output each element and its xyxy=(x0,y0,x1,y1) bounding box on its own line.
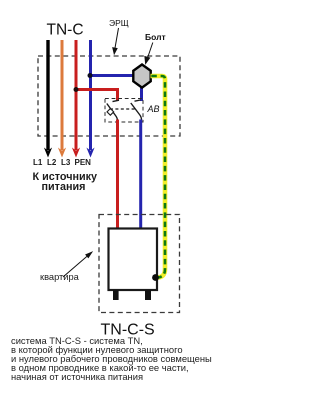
wire L1 (black phase) xyxy=(46,40,49,150)
caption text block xyxy=(11,335,212,382)
breaker pole 1 (red phase): fixed contact tick xyxy=(113,100,120,101)
arrowhead PEN xyxy=(86,148,94,158)
svg-text:АВ: АВ xyxy=(147,104,160,114)
wire: blue branch PEN to bolt (horizontal) xyxy=(91,74,136,77)
wire: blue from bolt down to breaker xyxy=(140,84,143,101)
PE terminal dot on panel xyxy=(152,274,159,281)
box ЭРЩ (floor distribution board, dashed) xyxy=(38,56,180,136)
svg-text:начиная от источника питания: начиная от источника питания xyxy=(11,371,143,382)
svg-text:квартира: квартира xyxy=(40,272,80,282)
bolt (hex head, gray) xyxy=(133,65,150,88)
svg-text:ЭРЩ: ЭРЩ xyxy=(109,18,129,28)
svg-text:L1: L1 xyxy=(33,158,43,167)
box АВ (circuit breakers, dashed) xyxy=(105,99,143,123)
arrowhead L1 xyxy=(44,148,52,158)
apartment panel (white box) xyxy=(109,229,158,291)
junction dot on L3 wire xyxy=(74,87,79,92)
box квартира (apartment, dashed) xyxy=(99,215,180,313)
breaker pole 2 blade xyxy=(131,103,142,120)
wire PE (yellow-green) from bolt to apartment panel xyxy=(151,76,166,278)
wire PEN (blue) xyxy=(89,40,92,150)
wire: red from breaker down to apartment panel xyxy=(116,120,119,230)
leader arrow to ЭРЩ box xyxy=(113,28,119,54)
wire: blue from breaker down to apartment panel xyxy=(139,120,142,230)
svg-text:питания: питания xyxy=(42,181,86,193)
svg-text:L3: L3 xyxy=(61,158,71,167)
breaker linkage (dashed) xyxy=(110,108,136,110)
panel foot right xyxy=(145,290,151,300)
svg-text:L2: L2 xyxy=(47,158,57,167)
wire: red branch L3 (horizontal then down to breaker) xyxy=(76,90,118,102)
leader arrow to bolt xyxy=(145,43,153,64)
wire L2 (orange phase) xyxy=(61,40,64,150)
arrowhead L3 xyxy=(72,148,80,158)
wire L3 (red phase) xyxy=(75,40,78,150)
breaker pole 1 blade xyxy=(107,104,118,122)
breaker pole 1 release diamond xyxy=(107,109,114,116)
svg-text:TN-C: TN-C xyxy=(47,22,84,39)
svg-text:Болт: Болт xyxy=(145,32,166,42)
breaker pole 2 (blue): fixed contact tick xyxy=(135,100,141,101)
leader arrow to квартира box xyxy=(63,252,92,277)
svg-text:PEN: PEN xyxy=(75,158,92,167)
junction dot on PEN wire xyxy=(88,73,93,78)
arrowhead L2 xyxy=(58,148,66,158)
panel foot left xyxy=(113,290,119,300)
